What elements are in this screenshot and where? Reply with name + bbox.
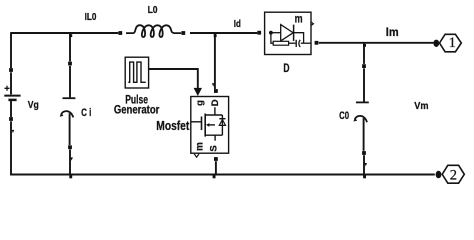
svg-text:D: D	[210, 99, 221, 106]
svg-text:g: g	[194, 100, 205, 106]
svg-text:S: S	[209, 145, 220, 151]
svg-text:Id: Id	[234, 18, 241, 29]
svg-text:1: 1	[449, 35, 456, 51]
svg-text:Mosfet: Mosfet	[156, 120, 189, 133]
svg-text:IL0: IL0	[85, 11, 97, 22]
svg-text:2: 2	[450, 168, 457, 184]
svg-text:Vm: Vm	[414, 101, 429, 113]
svg-text:D: D	[283, 62, 289, 76]
svg-text:C i: C i	[81, 106, 91, 118]
svg-text:L0: L0	[148, 4, 158, 16]
svg-text:m: m	[295, 14, 303, 26]
svg-text:C0: C0	[339, 110, 349, 121]
svg-text:m: m	[194, 142, 205, 151]
svg-text:Vg: Vg	[28, 99, 39, 111]
svg-text:Generator: Generator	[114, 104, 160, 117]
svg-text:Im: Im	[386, 27, 399, 39]
